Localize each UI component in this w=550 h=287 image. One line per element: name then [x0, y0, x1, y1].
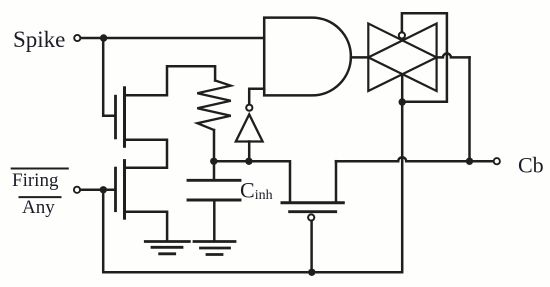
- capacitor C1 top plate: [188, 179, 240, 182]
- terminal Cb (open circle): [494, 158, 500, 164]
- junction node Spike: [100, 34, 107, 41]
- wire M2 source to ground: [125, 212, 168, 241]
- transistor M1 gate bar: [114, 96, 117, 138]
- svg-text:Cinh: Cinh: [240, 178, 273, 204]
- junction node bottom rail: [308, 269, 315, 276]
- svg-text:Cb: Cb: [518, 153, 544, 178]
- resistor R1: [197, 81, 231, 131]
- inverter U2 output bubble: [246, 105, 252, 111]
- terminal Firing/Any (open circle): [74, 187, 80, 193]
- wire Spike node down to M1 gate: [103, 38, 114, 116]
- wire node A up to inverter input: [248, 142, 251, 162]
- transmission gate T1 right-pointing triangle: [368, 24, 436, 92]
- capacitor C1 bottom plate: [188, 199, 240, 202]
- wire inverter output to AND gate input 2: [249, 89, 264, 105]
- wire resistor bottom to node A: [213, 130, 216, 161]
- wire M1 source to M2 drain: [125, 140, 168, 168]
- wire AND output to transmission gate: [351, 56, 368, 59]
- svg-text:Spike: Spike: [13, 27, 65, 52]
- ground G2: [194, 242, 235, 255]
- terminal Spike (open circle): [74, 35, 80, 41]
- wire TG top gate loop: [402, 13, 447, 102]
- wire Firing node down to bottom rail: [103, 102, 402, 272]
- transistor M3 left terminal wire: [335, 161, 338, 201]
- transistor M2 channel bar: [123, 161, 126, 219]
- wire TG output down to Cb rail: [468, 57, 471, 161]
- transistor M3 channel bar: [282, 201, 343, 204]
- transistor M3 gate bubble: [308, 214, 314, 220]
- wire TG output with hop over loop wire: [437, 53, 470, 57]
- svg-text:Any: Any: [22, 197, 55, 218]
- transistor M1 channel bar: [123, 88, 126, 147]
- wire Firing terminal to M2 gate: [80, 189, 114, 192]
- transmission gate T1 gate bubble: [399, 32, 405, 38]
- transmission gate T1 left-pointing triangle: [368, 24, 436, 92]
- wire node A down to capacitor: [213, 161, 216, 179]
- junction node Firing: [100, 186, 107, 193]
- svg-text:Firing: Firing: [12, 170, 59, 191]
- transistor M3 gate bar: [290, 210, 336, 213]
- wire M3 gate bubble down to bottom rail: [310, 221, 313, 273]
- wire M1 drain up to resistor top: [125, 66, 216, 95]
- wire Spike terminal to AND gate input 1: [81, 37, 265, 40]
- junction node Cb: [466, 158, 473, 165]
- label Any (overline): [20, 196, 61, 198]
- transistor M2 gate bar: [114, 168, 117, 211]
- label Firing (overline): [12, 168, 68, 170]
- wire capacitor to ground: [213, 200, 216, 240]
- wire TG bottom gate down to junction: [401, 75, 404, 103]
- junction node TG gate: [399, 98, 406, 105]
- junction node A inverter input: [245, 158, 252, 165]
- ground G1: [145, 242, 189, 254]
- node A rail (Cinh node): [214, 161, 290, 201]
- junction node A resistor: [210, 158, 217, 165]
- wire Cb rail with hop over TG gate wire: [336, 157, 493, 161]
- inverter U2 triangle: [236, 114, 263, 141]
- AND gate U1: [264, 18, 351, 96]
